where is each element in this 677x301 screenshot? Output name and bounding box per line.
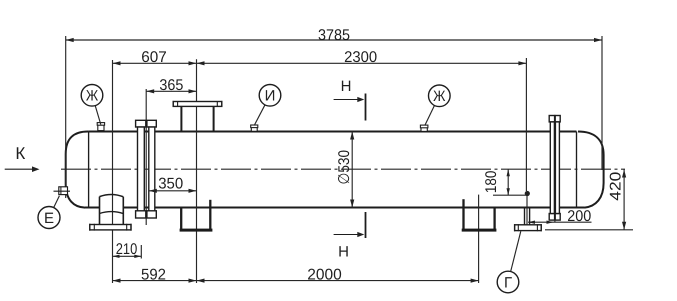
nozzle Г axis dot [525, 191, 530, 196]
svg-text:3785: 3785 [318, 27, 350, 44]
label circle Ж2 [429, 85, 451, 107]
nozzle Г axis extension [493, 194, 527, 196]
bottom nozzle A intersection arcs [100, 194, 124, 196]
extension line 3785 left [65, 36, 67, 198]
nozzle Г flange [515, 225, 542, 231]
dim diam 530 [351, 132, 353, 208]
girth flange right [549, 116, 560, 221]
nozzle Е on head [59, 187, 68, 195]
dim 3785 [66, 39, 602, 41]
vessel centerline [61, 168, 625, 170]
dim 2300 [197, 62, 527, 64]
svg-text:Е: Е [44, 210, 54, 227]
dim 2000 [197, 280, 479, 282]
svg-text:592: 592 [141, 267, 166, 284]
svg-text:Н: Н [341, 78, 352, 95]
girth flange pair left [136, 120, 157, 218]
svg-text:К: К [15, 144, 25, 163]
nozzle Ж1 on left head [98, 125, 104, 131]
extension line right saddle axis [478, 195, 480, 283]
dim 180 [507, 169, 509, 195]
right head [578, 132, 604, 208]
label circle Е [38, 207, 60, 229]
extension line top nozzle axis [196, 59, 198, 283]
dim 592 [113, 280, 197, 282]
dim 420 base extension [545, 229, 633, 231]
saddle support 2 [464, 199, 495, 230]
svg-text:200: 200 [567, 208, 591, 225]
gasket stub right flange [554, 220, 556, 222]
leader Ж2 [425, 105, 435, 125]
leader Г [511, 231, 521, 271]
gasket line left flange / ext 365 [145, 89, 147, 225]
leader И [254, 105, 265, 126]
dim 210 [113, 255, 142, 257]
svg-text:607: 607 [141, 49, 167, 66]
leader Е [54, 196, 60, 208]
svg-text:Ж: Ж [86, 88, 98, 105]
extension line bottom-left nozzle axis [112, 60, 114, 283]
nozzle Ж2 [421, 127, 427, 131]
label circle Ж1 [81, 85, 103, 107]
svg-text:Н: Н [338, 243, 349, 260]
extension line 3785 right [601, 36, 603, 170]
svg-text:2300: 2300 [344, 49, 377, 66]
shell bottom line [85, 207, 100, 209]
svg-text:365: 365 [159, 77, 183, 94]
left head [66, 131, 89, 207]
svg-text:350: 350 [158, 176, 183, 193]
svg-text:∅530: ∅530 [336, 150, 353, 185]
shell top line [89, 131, 577, 133]
nozzle И [251, 127, 257, 131]
view K arrow [5, 168, 33, 170]
label circle И [259, 85, 281, 107]
svg-text:210: 210 [116, 241, 138, 258]
top nozzle B neck [180, 106, 182, 131]
section H top marker [365, 94, 367, 121]
svg-text:И: И [265, 88, 276, 105]
dim 365 [146, 90, 196, 92]
top nozzle B flange [173, 102, 222, 107]
svg-text:180: 180 [483, 170, 500, 193]
dim 350 [149, 190, 197, 192]
saddle support 1 [181, 200, 210, 231]
svg-text:Г: Г [504, 274, 512, 291]
bottom nozzle A flange [90, 225, 131, 230]
dim 607 [113, 62, 197, 64]
nozzle Г neck [524, 208, 526, 225]
leader Ж1 [95, 106, 101, 125]
svg-text:2000: 2000 [307, 267, 342, 284]
label circle Г [497, 271, 519, 293]
extension line nozzle Г axis upper [525, 58, 527, 191]
dim 200 [528, 221, 592, 223]
svg-text:420: 420 [608, 171, 625, 200]
right head tangent line [576, 132, 578, 208]
section H bottom marker [365, 212, 367, 238]
bottom nozzle A neck [99, 197, 101, 225]
dim 420 [623, 169, 625, 230]
svg-text:Ж: Ж [433, 88, 445, 105]
left head tangent line [88, 132, 90, 208]
